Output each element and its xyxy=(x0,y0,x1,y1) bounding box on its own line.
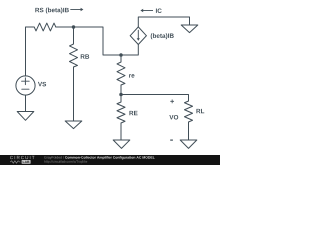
label: RS (beta)IB with right arrow xyxy=(35,8,83,14)
label: (beta)IB xyxy=(151,33,174,39)
label: RB xyxy=(81,54,89,58)
label: VS xyxy=(38,82,46,86)
node: base junction at top of re xyxy=(119,53,123,57)
wire: left vertical from VS top up to RS xyxy=(26,27,35,76)
resistor RL xyxy=(185,101,193,140)
label: VO xyxy=(169,115,178,119)
node: junction RS/RB xyxy=(72,25,76,29)
wire: emitter node to RL top xyxy=(121,95,189,102)
wire: dependent source top to collector ground xyxy=(138,17,189,27)
ground: below RB xyxy=(65,121,82,129)
ground: below RE xyxy=(113,140,130,148)
label: IC with left arrow xyxy=(140,8,161,12)
wire: RS to base corner node xyxy=(56,27,121,55)
watermark bar xyxy=(0,155,220,165)
dependent current source (beta)IB xyxy=(130,27,146,45)
voltage source VS xyxy=(16,76,35,112)
node: emitter junction xyxy=(119,93,123,97)
resistor RS xyxy=(34,23,56,31)
wire: base node to dependent source bottom xyxy=(121,45,138,56)
ground: below VS xyxy=(17,112,34,121)
label: VO minus sign xyxy=(170,139,173,141)
resistor RB xyxy=(70,27,78,67)
watermark text: author and title xyxy=(44,156,155,159)
ground: below RL xyxy=(180,140,197,148)
wire: RB bottom to ground xyxy=(73,67,75,121)
resistor re xyxy=(117,55,125,95)
ground: collector top right xyxy=(181,25,198,33)
label: re xyxy=(129,74,134,77)
label: RE xyxy=(129,111,137,115)
resistor RE xyxy=(117,95,125,141)
logo: CircuitLab xyxy=(10,156,34,164)
watermark text: url xyxy=(44,160,87,163)
label: VO plus sign xyxy=(170,99,174,103)
label: RL xyxy=(196,109,204,113)
